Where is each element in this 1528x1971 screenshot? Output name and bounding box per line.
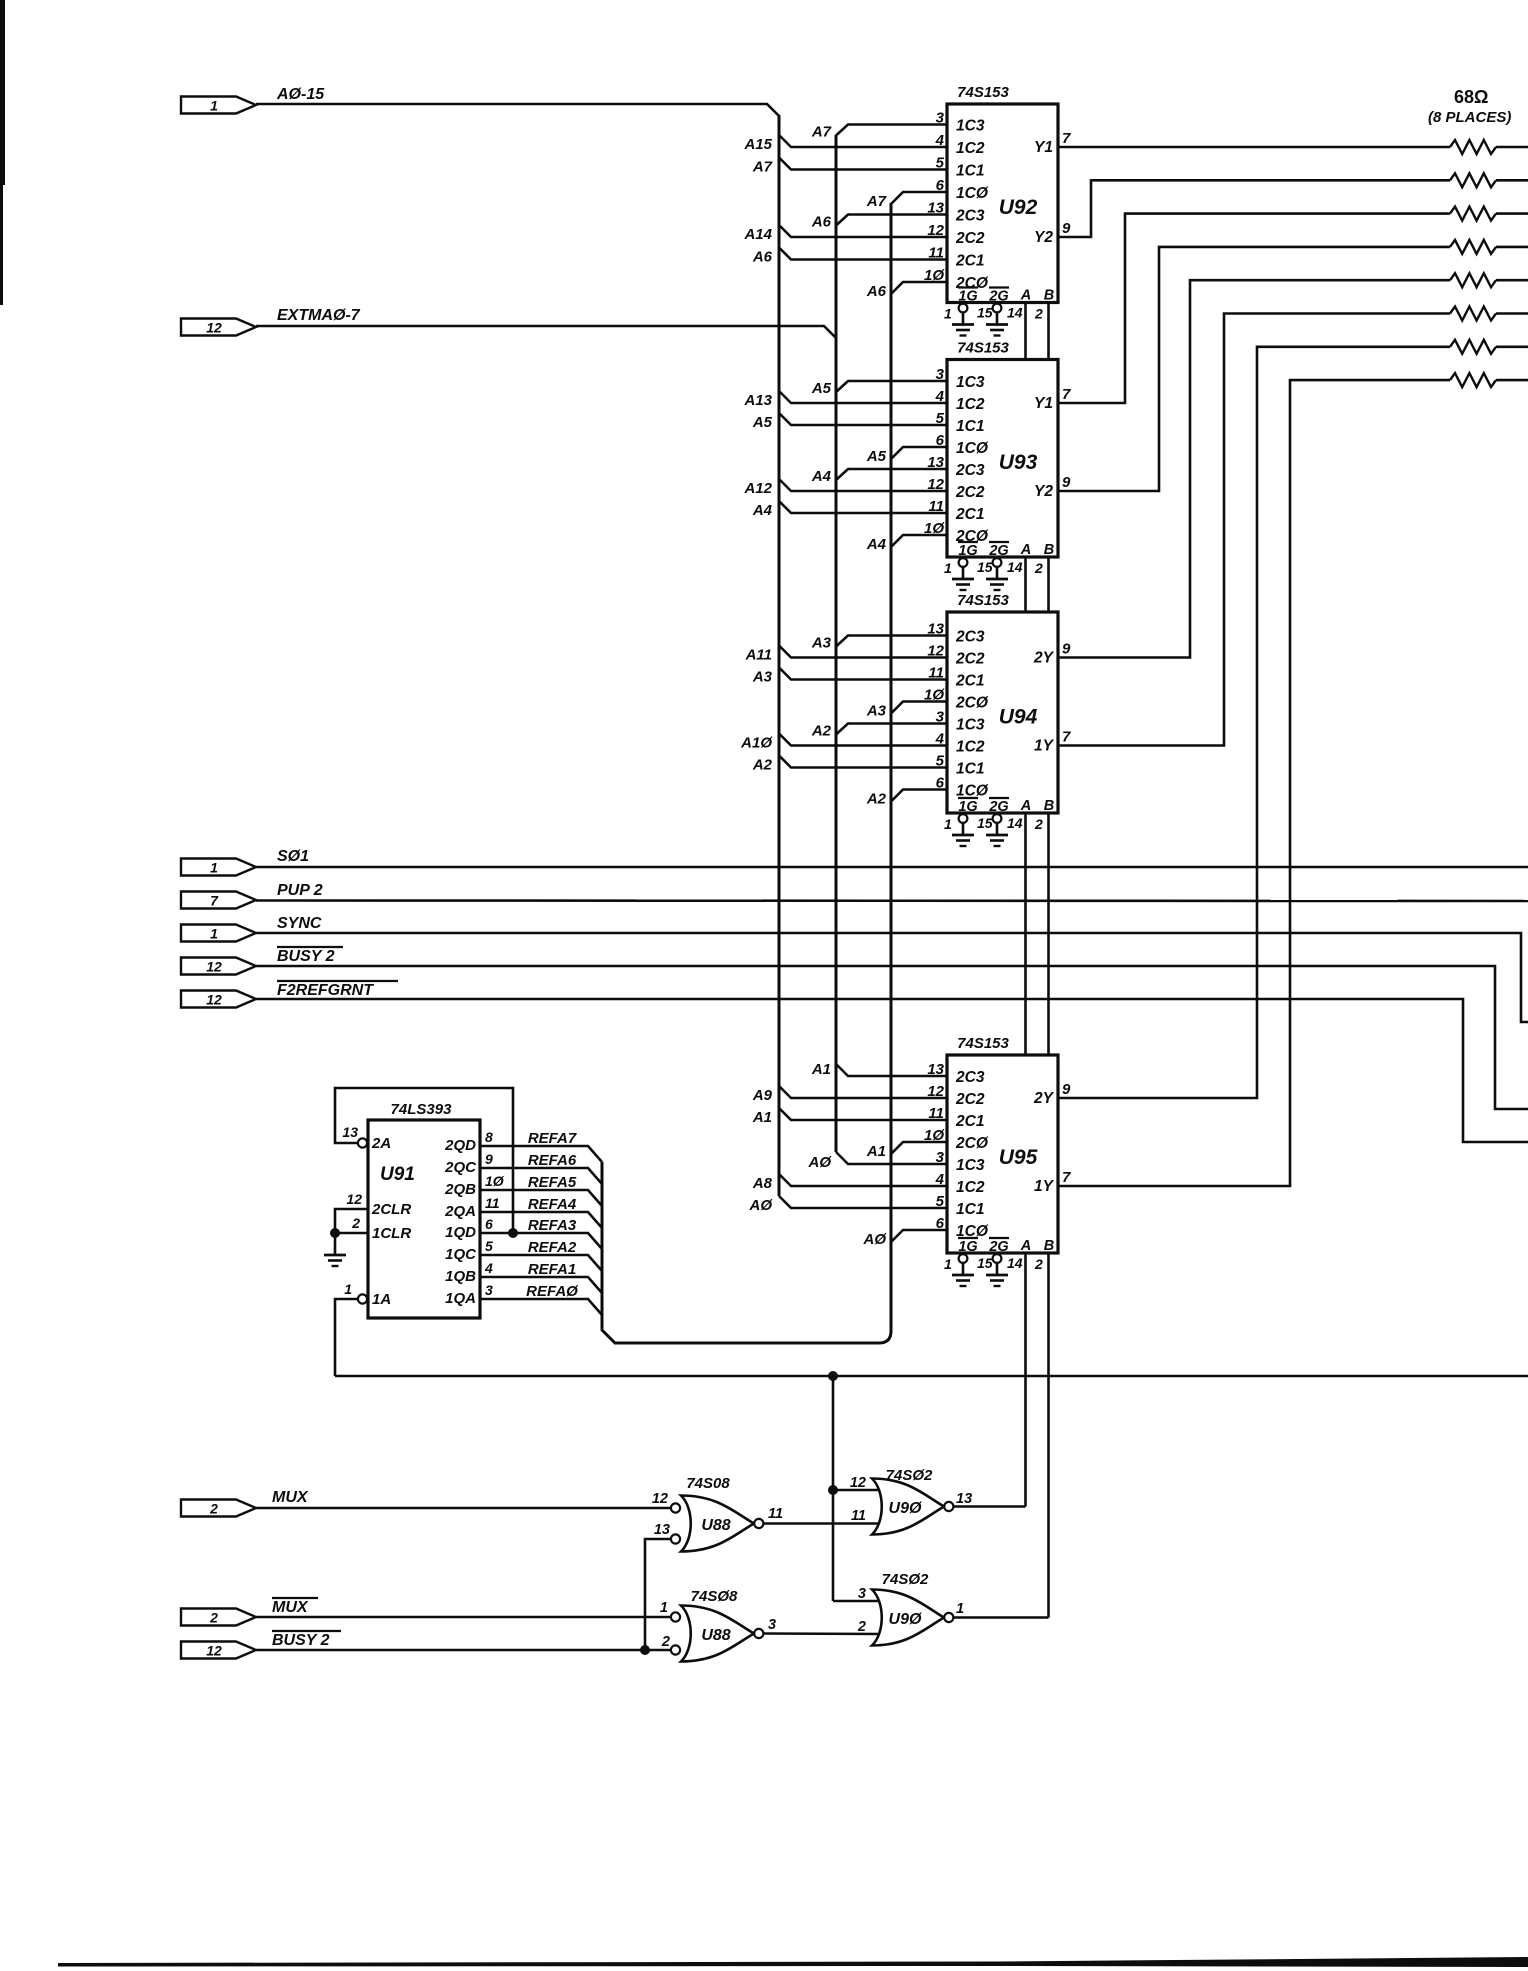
svg-text:MUX: MUX [272, 1489, 309, 1506]
wire A0-15 bus to vertical [256, 104, 779, 116]
svg-text:1C1: 1C1 [956, 418, 984, 435]
svg-text:A1: A1 [752, 1109, 772, 1126]
wire U88 pin 3 to U90 pin 2 [764, 1632, 884, 1635]
wire tap A5 from EXTMA bus to U93 pin 3 [836, 381, 947, 392]
svg-text:11: 11 [768, 1506, 783, 1522]
svg-text:12: 12 [850, 1475, 866, 1491]
junction 1CLR / 2CLR to ground [330, 1228, 340, 1238]
svg-text:A5: A5 [811, 380, 832, 397]
svg-text:74LS393: 74LS393 [391, 1101, 453, 1118]
svg-text:13: 13 [956, 1491, 972, 1507]
svg-text:14: 14 [1007, 815, 1023, 831]
svg-text:74SØ8: 74SØ8 [691, 1588, 738, 1605]
wire tap A11 from A0-15 bus to U94 pin 12 [779, 646, 947, 658]
svg-text:1C1: 1C1 [956, 1201, 984, 1218]
svg-text:1C3: 1C3 [956, 1157, 985, 1174]
svg-text:2C2: 2C2 [955, 1091, 985, 1108]
ground at U95 pin 15 [993, 1254, 1002, 1263]
svg-text:2QB: 2QB [444, 1181, 476, 1198]
svg-text:1C2: 1C2 [956, 739, 985, 756]
wire tap A3 from REFA bus to U94 pin 1Ø [891, 702, 947, 714]
svg-text:Y1: Y1 [1034, 395, 1053, 412]
svg-text:U94: U94 [999, 706, 1038, 729]
svg-text:1G: 1G [958, 543, 977, 559]
wire tap A1 from REFA bus to U95 pin 1Ø [891, 1142, 947, 1154]
wire U90 pin 13 to select A [954, 1505, 1026, 1508]
svg-text:A5: A5 [866, 448, 887, 465]
multiplexer U92 (74S153) body [947, 104, 1058, 303]
wire branch to U88 pin 13 [645, 1539, 671, 1650]
svg-text:2C2: 2C2 [955, 230, 985, 247]
svg-text:1C2: 1C2 [956, 140, 985, 157]
svg-text:1: 1 [944, 816, 952, 832]
gate U90 upper (74S02 NOR) [872, 1479, 944, 1535]
svg-text:A8: A8 [752, 1175, 773, 1192]
svg-text:2: 2 [661, 1634, 670, 1650]
wire tap A4 from EXTMA bus to U93 pin 13 [836, 469, 947, 480]
ground at U92 pin 15 [993, 304, 1002, 313]
connector 12 (BUSY2-bar lower input flag) [181, 1642, 256, 1659]
svg-text:1QA: 1QA [445, 1290, 476, 1307]
connector 12 (F2REFGRNT input flag) [181, 991, 256, 1008]
junction 1QD to 2A feedback [508, 1228, 518, 1238]
connector 7 (PUP2 input flag) [181, 892, 256, 909]
svg-text:1C3: 1C3 [956, 118, 985, 135]
U90 lower output bubble pin 1 [944, 1613, 953, 1622]
svg-text:AØ: AØ [863, 1231, 888, 1248]
wire tap A4 from A0-15 bus to U93 pin 11 [779, 501, 947, 513]
svg-text:1CØ: 1CØ [956, 440, 989, 457]
svg-text:2G: 2G [988, 1239, 1008, 1255]
svg-text:A13: A13 [743, 392, 772, 409]
svg-text:2C1: 2C1 [955, 673, 984, 690]
svg-text:SØ1: SØ1 [277, 848, 309, 865]
svg-text:A: A [1020, 1238, 1031, 1254]
svg-text:U91: U91 [380, 1164, 415, 1185]
svg-text:12: 12 [346, 1191, 362, 1207]
svg-text:14: 14 [1007, 1255, 1023, 1271]
svg-text:1: 1 [210, 98, 218, 114]
svg-text:1Y: 1Y [1034, 1178, 1055, 1195]
svg-text:2: 2 [351, 1215, 360, 1231]
svg-text:MUX: MUX [272, 1599, 309, 1616]
wire tap A2 from A0-15 bus to U94 pin 5 [779, 756, 947, 768]
scan edge mark left [0, 0, 5, 185]
svg-text:2C3: 2C3 [955, 462, 985, 479]
svg-text:15: 15 [977, 1255, 993, 1271]
wire tap A1 from A0-15 bus to U95 pin 11 [779, 1108, 947, 1120]
U91 pin 13 (2A) bubble [358, 1138, 367, 1147]
wire U90 pin 1 to select B [954, 1616, 1049, 1619]
svg-text:1: 1 [956, 1601, 964, 1617]
svg-text:9: 9 [1062, 220, 1071, 237]
svg-text:(8 PLACES): (8 PLACES) [1428, 109, 1511, 126]
ground at U94 pin 15 [993, 814, 1002, 823]
svg-text:1A: 1A [372, 1291, 391, 1308]
wire resistor row 7 to right edge [1496, 345, 1528, 348]
wire EXTMA0-7 to bus vertical [256, 326, 836, 338]
bus wire A0-15 vertical [778, 115, 781, 1196]
connector 1 (SYNC input flag) [181, 925, 256, 942]
wire tap A15 from A0-15 bus to U92 pin 4 [779, 135, 947, 147]
wire 2CLR pin 12 stub [335, 1209, 368, 1233]
svg-text:A: A [1020, 542, 1031, 558]
multiplexer U95 (74S153) body [947, 1055, 1058, 1253]
wire REFA4 from U91 pin 11 into REFA bus [480, 1212, 602, 1228]
svg-text:13: 13 [654, 1522, 670, 1538]
gate U88 lower (74S08, negative-logic) [681, 1606, 754, 1662]
svg-text:REFAØ: REFAØ [526, 1283, 579, 1300]
svg-text:6: 6 [485, 1216, 493, 1232]
wire tap A12 from A0-15 bus to U93 pin 12 [779, 479, 947, 491]
svg-text:B: B [1044, 542, 1054, 558]
wire tap A6 from EXTMA bus to U92 pin 13 [836, 215, 947, 226]
wire tap A14 from A0-15 bus to U92 pin 12 [779, 225, 947, 237]
wire resistor row 3 to right edge [1496, 212, 1528, 215]
svg-text:A4: A4 [752, 502, 773, 519]
wire resistor row 2 to right edge [1496, 179, 1528, 182]
svg-text:14: 14 [1007, 559, 1023, 575]
wire MUX-bar to U88 pin 1 [256, 1616, 671, 1619]
junction at U90 pin 12 [828, 1485, 838, 1495]
svg-text:1: 1 [944, 306, 952, 322]
svg-text:2G: 2G [988, 543, 1008, 559]
svg-text:REFA6: REFA6 [528, 1152, 577, 1169]
svg-text:7: 7 [1062, 130, 1071, 147]
wire REFA1 from U91 pin 4 into REFA bus [480, 1277, 602, 1293]
svg-text:2G: 2G [988, 289, 1008, 305]
svg-text:74SØ2: 74SØ2 [882, 1571, 929, 1588]
svg-text:2G: 2G [988, 799, 1008, 815]
svg-text:1: 1 [944, 1256, 952, 1272]
svg-text:68Ω: 68Ω [1454, 87, 1488, 107]
svg-text:BUSY 2: BUSY 2 [272, 1632, 330, 1649]
gate U88 upper (74S08, negative-logic) [681, 1496, 754, 1552]
svg-text:A5: A5 [752, 414, 773, 431]
svg-text:REFA1: REFA1 [528, 1261, 576, 1278]
svg-text:1G: 1G [958, 1239, 977, 1255]
svg-text:B: B [1044, 798, 1054, 814]
svg-text:2C2: 2C2 [955, 651, 985, 668]
ground at U94 pin 1 [959, 814, 968, 823]
counter U91 (74LS393) body [368, 1120, 480, 1318]
svg-text:9: 9 [1062, 641, 1071, 658]
svg-text:A1: A1 [811, 1061, 831, 1078]
svg-text:1G: 1G [958, 799, 977, 815]
wire mux output to resistor row 1 [1058, 146, 1450, 149]
resistor 68 ohm row 7 [1450, 340, 1496, 354]
wire resistor row 4 to right edge [1496, 246, 1528, 249]
svg-text:12: 12 [206, 992, 222, 1008]
svg-text:4: 4 [484, 1260, 493, 1276]
svg-text:1CØ: 1CØ [956, 185, 989, 202]
bus wire EXTMA0-7 vertical [835, 135, 838, 1152]
svg-text:A7: A7 [866, 193, 887, 210]
svg-text:3: 3 [485, 1282, 493, 1298]
resistor 68 ohm row 6 [1450, 307, 1496, 321]
svg-text:1CLR: 1CLR [372, 1225, 411, 1242]
wire tap AØ from EXTMA bus to U95 pin 3 [836, 1152, 947, 1164]
junction long net to NOR gates [828, 1371, 838, 1381]
svg-text:2CLR: 2CLR [371, 1201, 411, 1218]
svg-text:3: 3 [768, 1617, 776, 1633]
wire tap A6 from A0-15 bus to U92 pin 11 [779, 248, 947, 260]
wire resistor row 8 to right edge [1496, 379, 1528, 382]
svg-text:AØ-15: AØ-15 [276, 86, 325, 103]
svg-text:2Y: 2Y [1033, 650, 1055, 667]
svg-text:9: 9 [485, 1151, 493, 1167]
svg-text:U9Ø: U9Ø [889, 1500, 922, 1517]
svg-text:2Y: 2Y [1033, 1090, 1055, 1107]
svg-text:74S153: 74S153 [957, 1035, 1009, 1052]
svg-text:A: A [1020, 798, 1031, 814]
wire REFA6 from U91 pin 9 into REFA bus [480, 1168, 602, 1184]
svg-text:A7: A7 [811, 124, 832, 141]
multiplexer U93 (74S153) body [947, 360, 1058, 558]
svg-text:U92: U92 [999, 196, 1038, 219]
wire BUSY2 to U88 pin 2 [256, 1649, 671, 1652]
wire resistor row 1 to right edge [1496, 146, 1528, 149]
svg-text:A1Ø: A1Ø [740, 735, 773, 752]
wire mux output to resistor row 7 [1058, 347, 1450, 1098]
wire tap A7 from REFA bus to U92 pin 6 [891, 192, 947, 204]
wire REFA7 from U91 pin 8 into REFA bus [480, 1146, 602, 1162]
svg-text:15: 15 [977, 815, 993, 831]
svg-text:AØ: AØ [749, 1197, 774, 1214]
svg-text:A11: A11 [745, 647, 772, 664]
svg-text:2: 2 [857, 1619, 866, 1635]
U88 upper output bubble pin 11 [754, 1519, 763, 1528]
svg-text:REFA2: REFA2 [528, 1239, 577, 1256]
svg-text:A15: A15 [743, 136, 772, 153]
connector 12 (BUSY2-bar input flag) [181, 958, 256, 975]
resistor 68 ohm row 1 [1450, 140, 1496, 154]
svg-text:15: 15 [977, 305, 993, 321]
wire resistor row 5 to right edge [1496, 279, 1528, 282]
svg-text:15: 15 [977, 559, 993, 575]
wire BUSY2 to right edge [256, 966, 1528, 1109]
connector 1 (S01 input flag) [181, 859, 256, 876]
svg-text:2CØ: 2CØ [955, 1135, 989, 1152]
svg-text:A1: A1 [866, 1143, 886, 1160]
bus wire REFA vertical (to U91 counter outputs) [602, 203, 891, 1343]
svg-text:A14: A14 [743, 226, 772, 243]
svg-text:2C3: 2C3 [955, 208, 985, 225]
svg-text:1: 1 [944, 560, 952, 576]
svg-text:12: 12 [206, 1643, 222, 1659]
wire tap A5 from A0-15 bus to U93 pin 5 [779, 413, 947, 425]
wire tap A1 from EXTMA bus to U95 pin 13 [836, 1064, 947, 1076]
svg-text:8: 8 [485, 1129, 493, 1145]
svg-text:11: 11 [485, 1195, 500, 1211]
svg-text:1C2: 1C2 [956, 396, 985, 413]
wire tap A9 from A0-15 bus to U95 pin 12 [779, 1086, 947, 1098]
wire tap A8 from A0-15 bus to U95 pin 4 [779, 1174, 947, 1186]
svg-text:Y1: Y1 [1034, 139, 1053, 156]
svg-text:2C1: 2C1 [955, 506, 984, 523]
svg-text:2A: 2A [371, 1135, 391, 1152]
svg-text:A4: A4 [811, 468, 832, 485]
svg-text:2C1: 2C1 [955, 253, 984, 270]
ground at U93 pin 15 [993, 558, 1002, 567]
wire mux output to resistor row 4 [1058, 247, 1450, 491]
ground at U92 pin 1 [959, 304, 968, 313]
wire PUP2 across page [256, 899, 1528, 902]
connector 1 (A0-15 input flag) [181, 97, 256, 114]
wire tap A1Ø from A0-15 bus to U94 pin 4 [779, 734, 947, 746]
svg-text:A3: A3 [811, 635, 832, 652]
svg-text:1: 1 [210, 926, 218, 942]
svg-text:1C3: 1C3 [956, 374, 985, 391]
ground at U95 pin 1 [959, 1254, 968, 1263]
svg-text:REFA3: REFA3 [528, 1217, 577, 1234]
wire tap A7 from A0-15 bus to U92 pin 5 [779, 158, 947, 170]
ground at U91 CLR pins [334, 1233, 337, 1254]
svg-text:1: 1 [344, 1281, 352, 1297]
wire tap A5 from REFA bus to U93 pin 6 [891, 447, 947, 459]
wire tap A3 from EXTMA bus to U94 pin 13 [836, 636, 947, 647]
svg-text:7: 7 [1062, 729, 1071, 746]
svg-text:3: 3 [858, 1586, 866, 1602]
svg-text:1C1: 1C1 [956, 761, 984, 778]
connector 12 (EXTMA0-7 input flag) [181, 319, 256, 336]
svg-text:2C1: 2C1 [955, 1113, 984, 1130]
wire tap A6 from REFA bus to U92 pin 1Ø [891, 282, 947, 294]
svg-text:1C3: 1C3 [956, 717, 985, 734]
resistor 68 ohm row 2 [1450, 173, 1496, 187]
svg-text:A3: A3 [752, 669, 773, 686]
svg-text:A7: A7 [752, 159, 773, 176]
wire to U90 pin 3 [833, 1600, 883, 1603]
wire SYNC to right edge [256, 933, 1528, 1022]
svg-text:74S153: 74S153 [957, 340, 1009, 357]
svg-text:A: A [1020, 288, 1031, 304]
svg-text:1: 1 [210, 860, 218, 876]
wire tap AØ from REFA bus to U95 pin 6 [891, 1230, 947, 1242]
wire tap AØ from A0-15 bus to U95 pin 5 [779, 1196, 947, 1208]
wire select A (chain U92-U95 to U90 pin 13) [1024, 303, 1027, 360]
svg-text:Y2: Y2 [1034, 483, 1053, 500]
U88 upper input bubbles pins 12 13 [671, 1503, 680, 1512]
svg-text:12: 12 [652, 1491, 668, 1507]
svg-text:74S153: 74S153 [957, 84, 1009, 101]
svg-text:2: 2 [1034, 1256, 1043, 1272]
resistor 68 ohm row 8 [1450, 373, 1496, 387]
connector 2 (MUX-bar input flag) [181, 1609, 256, 1626]
svg-text:A12: A12 [743, 480, 772, 497]
wire 1CLR pin 2 stub [335, 1232, 368, 1235]
svg-text:7: 7 [210, 893, 219, 909]
svg-text:14: 14 [1007, 305, 1023, 321]
wire S01 across page [256, 866, 1528, 869]
svg-text:1Y: 1Y [1034, 738, 1055, 755]
wire REFAØ from U91 pin 3 into REFA bus [480, 1299, 602, 1315]
gate U90 lower (74S02 NOR) [872, 1590, 944, 1646]
wire REFA2 from U91 pin 5 into REFA bus [480, 1255, 602, 1271]
svg-text:2: 2 [1034, 560, 1043, 576]
wire mux output to resistor row 6 [1058, 314, 1450, 746]
ground at U93 pin 1 [959, 558, 968, 567]
svg-text:1QD: 1QD [445, 1224, 476, 1241]
svg-text:A6: A6 [866, 283, 887, 300]
svg-text:12: 12 [206, 320, 222, 336]
svg-text:2: 2 [1034, 816, 1043, 832]
wire select B (chain U92-U95 to U90 pin 1) [1047, 303, 1050, 360]
wire MUX to U88 pin 12 [256, 1507, 671, 1510]
svg-text:2QA: 2QA [444, 1203, 476, 1220]
svg-text:7: 7 [1062, 1169, 1071, 1186]
wire junction down to U90 inputs [832, 1376, 835, 1601]
wire mux output to resistor row 2 [1058, 180, 1450, 237]
U91 pin 1 (1A) bubble [358, 1294, 367, 1303]
resistor 68 ohm row 4 [1450, 240, 1496, 254]
wire U88 pin 11 to U90 pin 11 [764, 1522, 884, 1525]
svg-text:74S153: 74S153 [957, 592, 1009, 609]
svg-text:REFA4: REFA4 [528, 1196, 577, 1213]
svg-text:1G: 1G [958, 289, 977, 305]
wire F2REFGRNT to right edge [256, 999, 1528, 1142]
svg-text:SYNC: SYNC [277, 915, 322, 932]
svg-text:2CØ: 2CØ [955, 695, 989, 712]
U88 lower output bubble pin 3 [754, 1629, 763, 1638]
svg-text:2C3: 2C3 [955, 629, 985, 646]
svg-text:REFA5: REFA5 [528, 1174, 577, 1191]
svg-text:U88: U88 [701, 1627, 730, 1644]
svg-text:U88: U88 [701, 1517, 730, 1534]
svg-text:1C2: 1C2 [956, 1179, 985, 1196]
scan edge line bottom [58, 1957, 1528, 1967]
svg-text:5: 5 [485, 1238, 493, 1254]
wire REFA3 from U91 pin 6 into REFA bus [480, 1233, 602, 1249]
svg-text:U95: U95 [999, 1146, 1038, 1169]
wire tap A7 from EXTMA bus to U92 pin 3 [836, 125, 947, 136]
svg-text:7: 7 [1062, 386, 1071, 403]
svg-text:11: 11 [851, 1508, 866, 1524]
wire resistor row 6 to right edge [1496, 312, 1528, 315]
svg-text:A2: A2 [752, 757, 773, 774]
svg-text:U93: U93 [999, 451, 1038, 474]
wire tap A13 from A0-15 bus to U93 pin 4 [779, 391, 947, 403]
long wire from U91 1A across page [335, 1375, 1528, 1378]
resistor 68 ohm row 3 [1450, 207, 1496, 221]
svg-text:1QC: 1QC [445, 1246, 477, 1263]
wire mux output to resistor row 3 [1058, 214, 1450, 403]
svg-text:BUSY 2: BUSY 2 [277, 948, 335, 965]
svg-text:F2REFGRNT: F2REFGRNT [277, 982, 374, 999]
svg-text:1Ø: 1Ø [485, 1173, 505, 1189]
svg-text:A2: A2 [866, 791, 887, 808]
wire 1A down to long net [335, 1299, 358, 1376]
svg-text:A6: A6 [811, 214, 832, 231]
junction BUSY2 to pin13 branch [640, 1645, 650, 1655]
svg-text:9: 9 [1062, 474, 1071, 491]
svg-text:2: 2 [209, 1501, 218, 1517]
wire mux output to resistor row 8 [1058, 380, 1450, 1186]
svg-text:A9: A9 [752, 1087, 773, 1104]
svg-text:EXTMAØ-7: EXTMAØ-7 [277, 307, 361, 324]
svg-text:B: B [1044, 288, 1054, 304]
svg-text:2QC: 2QC [444, 1159, 477, 1176]
svg-text:2: 2 [209, 1610, 218, 1626]
svg-text:1: 1 [660, 1600, 668, 1616]
svg-text:B: B [1044, 1238, 1054, 1254]
wire tap A4 from REFA bus to U93 pin 1Ø [891, 535, 947, 547]
svg-text:9: 9 [1062, 1081, 1071, 1098]
svg-text:REFA7: REFA7 [528, 1130, 577, 1147]
wire REFA5 from U91 pin 1Ø into REFA bus [480, 1190, 602, 1206]
svg-text:2: 2 [1034, 306, 1043, 322]
U88 lower input bubbles pins 1 2 [671, 1612, 680, 1621]
